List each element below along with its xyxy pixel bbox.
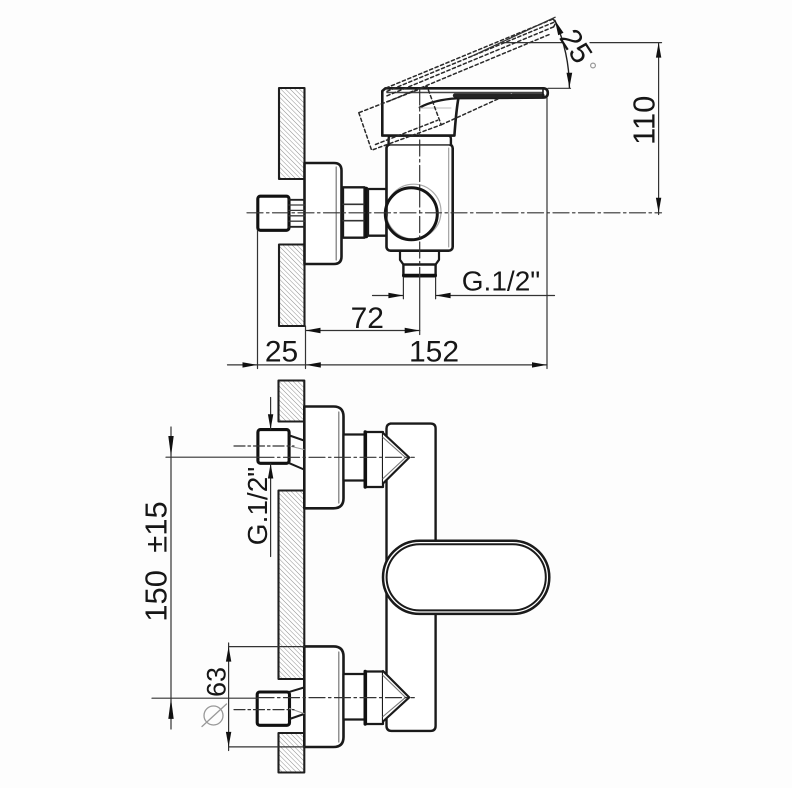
25/152 dimension line bbox=[228, 364, 548, 366]
150 dim extension top bbox=[166, 456, 258, 458]
wall upper segment (hatched) bbox=[279, 88, 305, 179]
wall segment top (hatched) bbox=[279, 381, 305, 422]
svg-text:110: 110 bbox=[627, 96, 662, 145]
G.1/2 dimension line bbox=[373, 295, 404, 297]
body inner edge highlight bbox=[448, 148, 450, 247]
handle cap junction curve bbox=[420, 98, 457, 107]
degree symbol bbox=[591, 63, 596, 68]
lower escutcheon inner edge bbox=[338, 652, 340, 742]
svg-text:152: 152 bbox=[409, 336, 459, 369]
lower union step 1 bbox=[344, 674, 367, 720]
vertical centerline of body bbox=[419, 89, 421, 277]
dia 63 extension bottom bbox=[229, 746, 305, 748]
cartridge circle thin flange bbox=[386, 184, 441, 239]
valve body (side) bbox=[387, 144, 453, 250]
lower escutcheon bbox=[304, 646, 343, 747]
wall lower segment (hatched) bbox=[279, 245, 305, 327]
G.1/2 extension lines below nipple bbox=[402, 278, 404, 299]
cartridge circle bbox=[385, 188, 437, 240]
lower inlet axis (dash-dot) bbox=[258, 697, 414, 699]
arc arrow upper bbox=[555, 20, 564, 35]
72 arrows bbox=[306, 328, 321, 333]
hex nut (wall supply) bbox=[258, 196, 289, 230]
25 deg slant line bbox=[470, 17, 555, 57]
wall segment bottom (hatched) bbox=[279, 733, 305, 773]
cartridge neck ring bbox=[389, 136, 451, 145]
150 arrow top (outside, pointing down) bbox=[168, 436, 173, 457]
mixer body (plan) bbox=[387, 424, 436, 731]
escutcheon plate (side) bbox=[305, 163, 342, 264]
G.1/2 leader arrow down bbox=[268, 414, 273, 429]
extension line below outlet center bbox=[419, 277, 421, 335]
open-position handle (dashed) lever lines bbox=[376, 19, 556, 145]
upper escutcheon bbox=[304, 407, 343, 509]
upper union step 1 bbox=[344, 435, 367, 481]
G.1/2 leader lower part bbox=[270, 464, 272, 557]
upper eccentric flare bbox=[290, 436, 304, 470]
150 dim extension bottom bbox=[152, 697, 258, 699]
72 dimension line bbox=[306, 330, 420, 332]
arrow at wall face bbox=[306, 362, 321, 367]
lower cone inner lines bbox=[383, 676, 406, 717]
extension line from wall face bbox=[305, 326, 307, 369]
upper union flange bar bbox=[364, 432, 367, 487]
G.1/2 leader arrow up bbox=[268, 464, 273, 479]
svg-text:25: 25 bbox=[265, 336, 298, 369]
extension line from nut face bbox=[257, 230, 259, 368]
25 deg top extension line bbox=[502, 42, 564, 44]
threaded nipple between nut and wall bbox=[289, 200, 305, 227]
union ring 2 bbox=[368, 189, 387, 236]
G.1/2 arrows bbox=[388, 293, 403, 298]
150 arrow bottom (outside, pointing up) bbox=[168, 698, 173, 719]
union ring 1 bbox=[343, 187, 365, 237]
wall segment middle (hatched) bbox=[279, 491, 305, 680]
diameter symbol bbox=[204, 706, 223, 725]
150 dimension line bbox=[170, 427, 172, 729]
upper nut axis (dash-dot) bbox=[234, 445, 294, 447]
arc arrow lower bbox=[567, 73, 573, 88]
dia 63 dimension line bbox=[228, 643, 230, 751]
110 arrow bottom bbox=[656, 198, 661, 213]
lower eccentric flare bbox=[290, 688, 304, 720]
lever handle inner line bbox=[387, 544, 546, 610]
upper cone inner lines bbox=[383, 438, 406, 479]
nipple thick bottom edge bbox=[404, 274, 436, 277]
G.1/2 leader upper part bbox=[270, 398, 272, 430]
110 dimension line bbox=[658, 43, 660, 215]
open-position handle (dashed) base bbox=[359, 86, 441, 150]
lever handle (plan, stadium) outer bbox=[383, 541, 549, 614]
dia 63 extension top bbox=[229, 646, 305, 648]
dia 63 arrow bottom bbox=[226, 732, 231, 747]
lower hex nut bbox=[257, 692, 289, 725]
horizontal centerline bbox=[247, 212, 662, 214]
svg-text:G.1/2": G.1/2" bbox=[242, 467, 273, 545]
lever tip cap tick bbox=[542, 88, 544, 97]
lower inlet cone bbox=[383, 671, 409, 722]
lower nut axis (dash-dot) bbox=[234, 709, 294, 711]
arrow at handle tip line bbox=[532, 362, 547, 367]
upper escutcheon inner edge bbox=[338, 412, 340, 503]
svg-text:G.1/2": G.1/2" bbox=[462, 266, 540, 297]
union ring 1 inner lines bbox=[343, 203, 365, 205]
outlet shower nipple bbox=[403, 265, 435, 277]
110 arrow top bbox=[656, 43, 661, 58]
lever underside dark band bbox=[455, 93, 510, 97]
handle top short extension bbox=[548, 87, 571, 89]
handle base + lever (solid) bbox=[382, 88, 548, 135]
escutcheon inner edge line bbox=[335, 167, 337, 260]
upper union step 2 bbox=[366, 432, 383, 487]
union flange thick bar bbox=[364, 189, 368, 237]
handle cap faint line bbox=[420, 107, 451, 109]
svg-text:63: 63 bbox=[202, 667, 232, 697]
svg-text:72: 72 bbox=[351, 302, 384, 335]
25 deg arc bbox=[555, 20, 570, 87]
lever top face edge line bbox=[387, 92, 542, 94]
dia 63 arrow top bbox=[226, 647, 231, 662]
lower union step 2 bbox=[366, 672, 383, 725]
outlet upper step bbox=[400, 251, 439, 265]
arrow at nut face bbox=[243, 362, 258, 367]
extension line from handle tip bbox=[546, 98, 548, 369]
upper inlet axis (dash-dot) bbox=[258, 456, 414, 458]
upper inlet cone bbox=[383, 433, 409, 484]
svg-text:150 ±15: 150 ±15 bbox=[139, 501, 174, 621]
upper hex nut bbox=[258, 430, 289, 464]
lower union flange bar bbox=[364, 672, 367, 725]
